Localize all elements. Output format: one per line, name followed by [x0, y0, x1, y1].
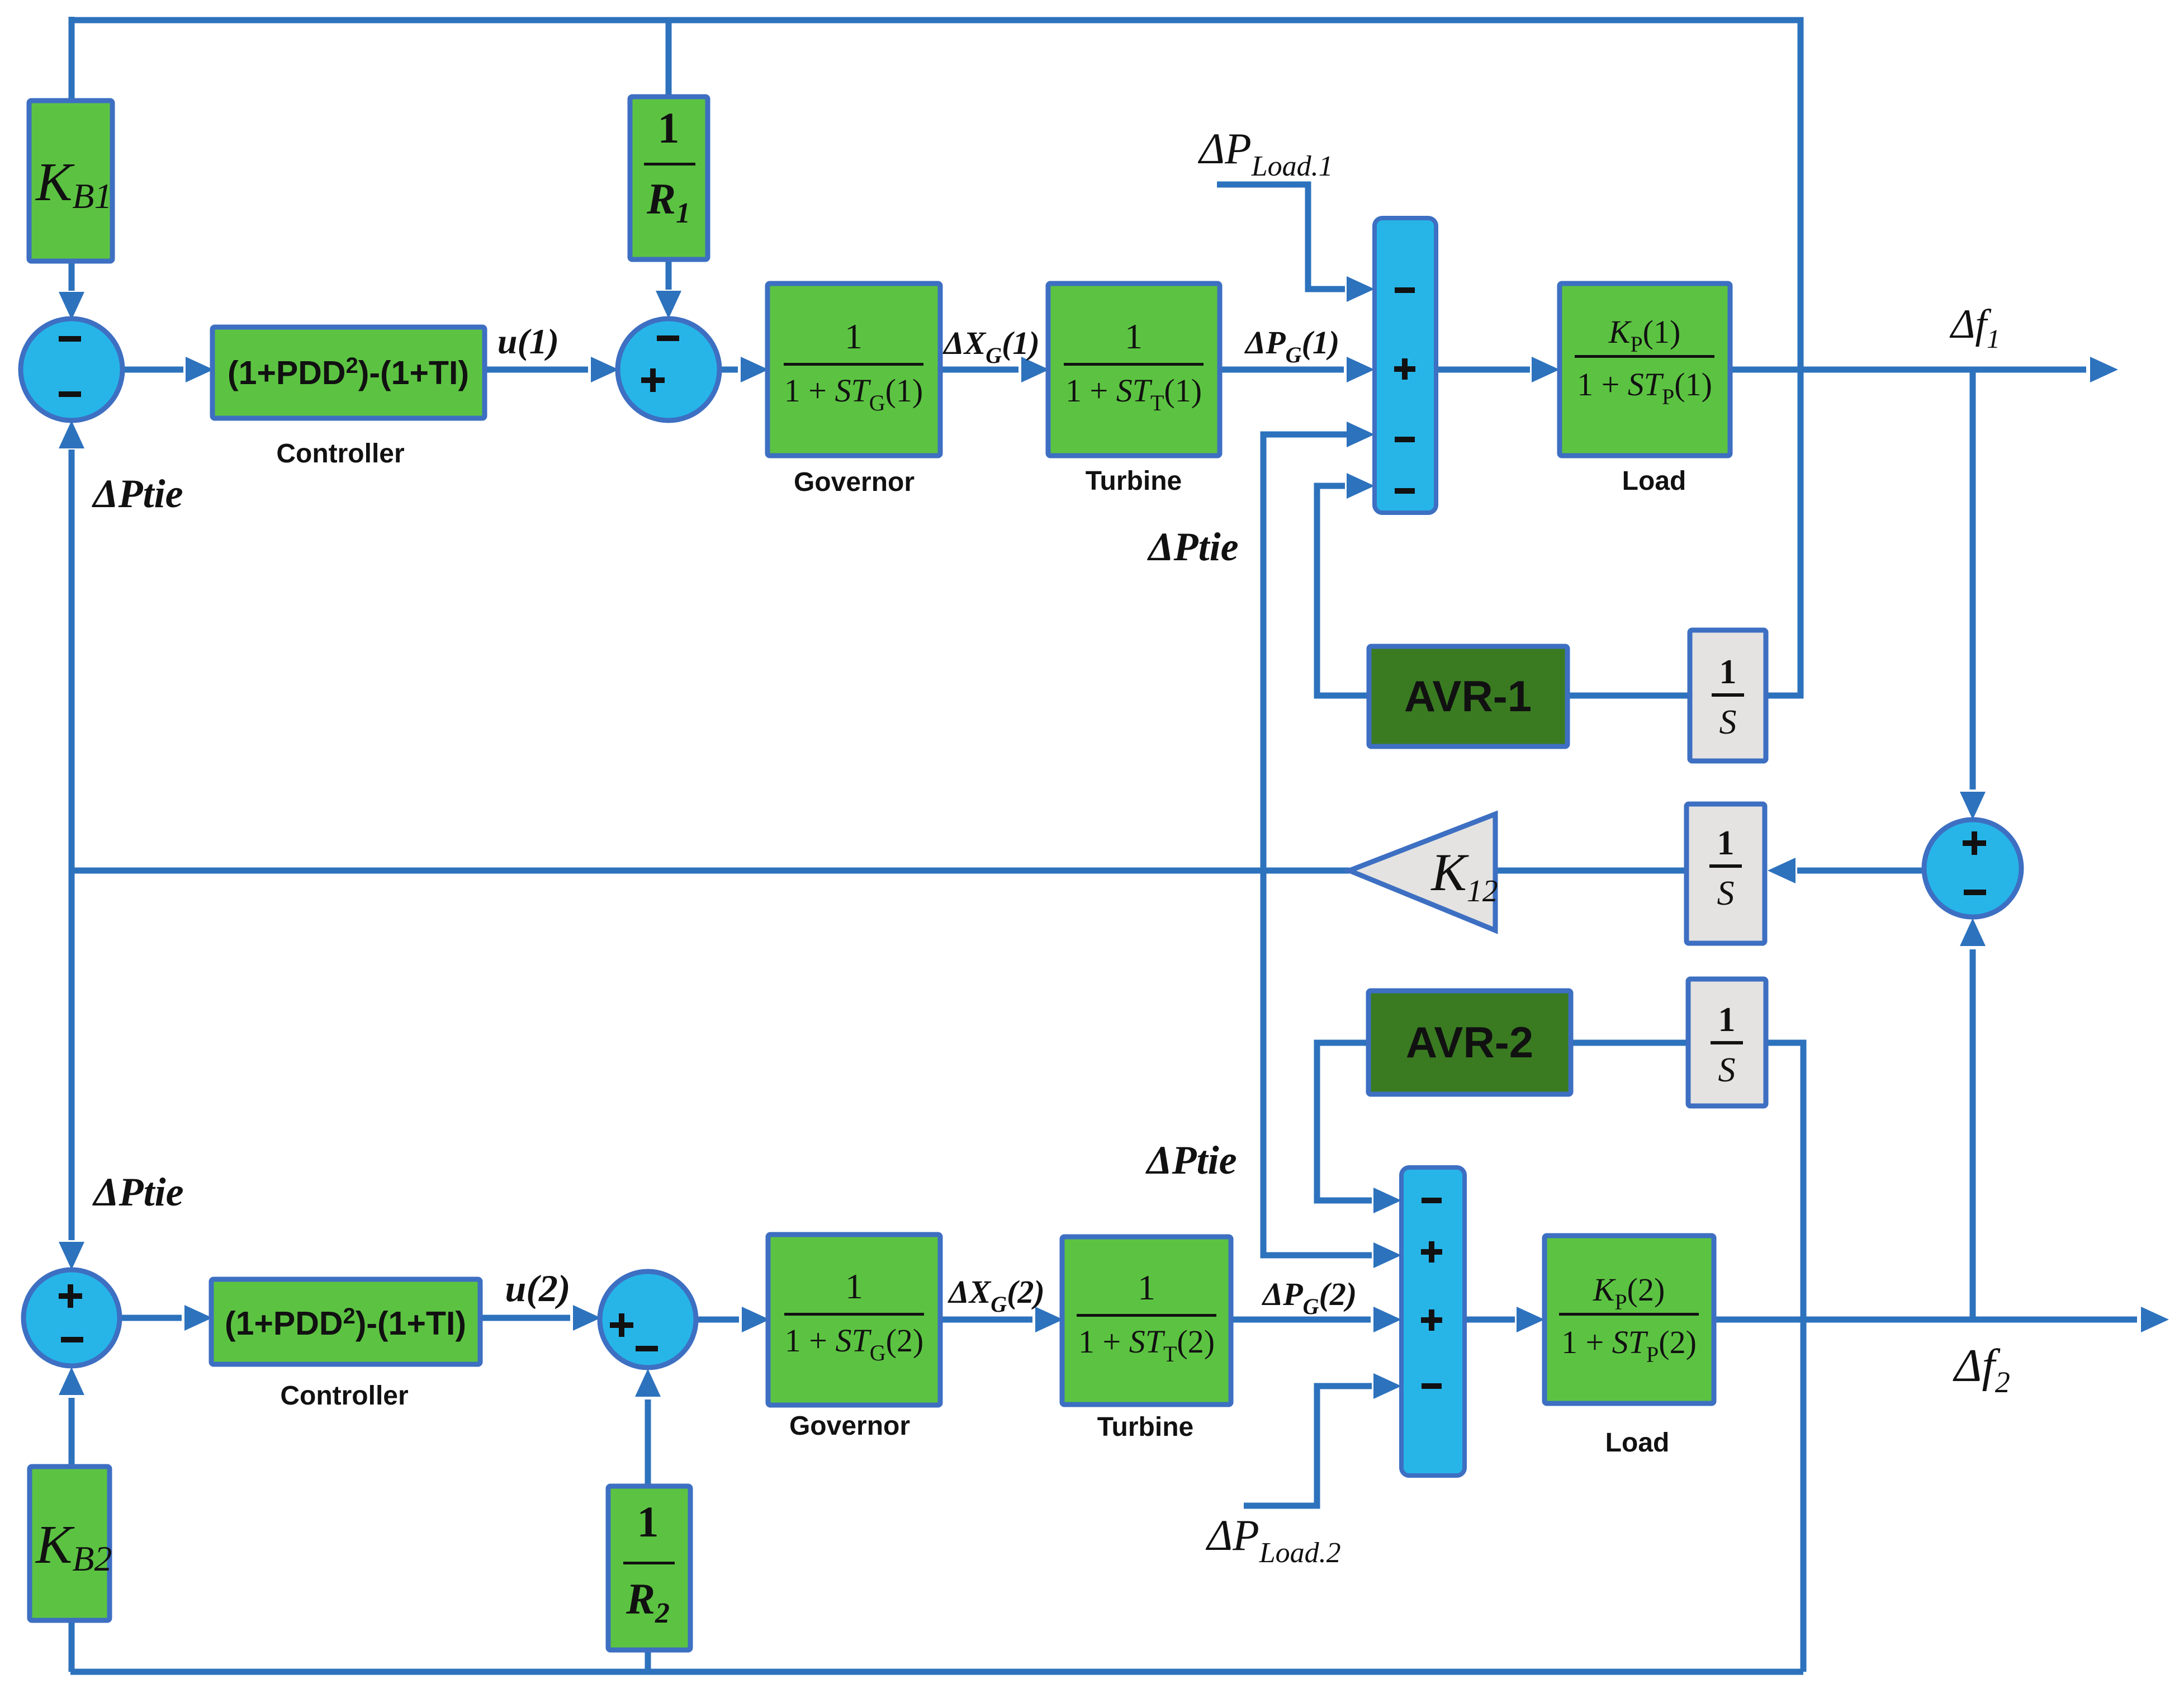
svg-text:Controller: Controller: [276, 439, 404, 469]
svg-text:1: 1: [1138, 1268, 1155, 1307]
svg-text:Load: Load: [1605, 1428, 1670, 1458]
svg-text:ΔPtie: ΔPtie: [92, 1170, 183, 1214]
svg-text:1: 1: [1717, 824, 1735, 862]
svg-text:ΔPtie: ΔPtie: [91, 471, 183, 516]
svg-text:AVR-1: AVR-1: [1404, 672, 1532, 721]
svg-text:1: 1: [658, 103, 680, 152]
svg-text:1: 1: [1718, 1001, 1736, 1039]
svg-text:S: S: [1719, 703, 1737, 741]
svg-text:Load: Load: [1622, 466, 1686, 496]
svg-text:1: 1: [1125, 316, 1143, 356]
svg-text:u(1): u(1): [498, 321, 559, 361]
svg-text:S: S: [1718, 1051, 1736, 1089]
svg-text:Governor: Governor: [789, 1411, 910, 1441]
svg-text:1: 1: [637, 1497, 659, 1546]
svg-text:S: S: [1717, 874, 1735, 912]
svg-text:1: 1: [845, 316, 863, 356]
svg-text:Turbine: Turbine: [1086, 466, 1182, 496]
svg-text:ΔPtie: ΔPtie: [1147, 524, 1238, 569]
svg-text:Turbine: Turbine: [1097, 1412, 1193, 1442]
svg-text:AVR-2: AVR-2: [1406, 1018, 1533, 1067]
svg-text:1: 1: [845, 1266, 863, 1306]
svg-text:ΔPtie: ΔPtie: [1145, 1138, 1237, 1183]
svg-text:u(2): u(2): [505, 1267, 570, 1309]
svg-text:Controller: Controller: [280, 1381, 408, 1411]
svg-text:1: 1: [1719, 653, 1737, 691]
svg-text:Governor: Governor: [794, 467, 915, 497]
